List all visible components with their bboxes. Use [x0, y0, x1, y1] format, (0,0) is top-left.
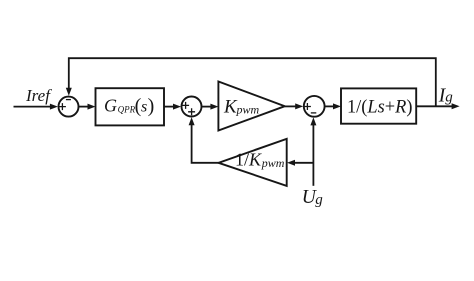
- gain 1/Kpwm (left-pointing triangle): [219, 139, 287, 186]
- block 1/(Ls+R): [341, 88, 416, 123]
- svg-text:g: g: [315, 192, 323, 208]
- wire output Ig: [416, 103, 459, 109]
- svg-text:QPR: QPR: [118, 105, 136, 115]
- svg-text:1/: 1/: [235, 150, 249, 170]
- wire summer 3 to block plant: [325, 103, 341, 109]
- svg-text:pwm: pwm: [261, 156, 285, 170]
- node Ug label: [302, 187, 324, 208]
- summing junction S2: [182, 97, 202, 117]
- svg-text:): ): [148, 95, 155, 117]
- node Ig label: [438, 85, 453, 106]
- svg-text:pwm: pwm: [236, 103, 260, 117]
- wire Ug to summer 3: [310, 117, 316, 185]
- wire block GQPR to summer 2: [164, 104, 181, 110]
- summing junction S3: [304, 96, 325, 117]
- svg-text:1/(Ls+R): 1/(Ls+R): [347, 97, 413, 117]
- wire Ug branch to gain 1/Kpwm: [287, 160, 313, 166]
- svg-text:G: G: [104, 96, 117, 116]
- wire summer 1 to block GQPR: [79, 104, 96, 110]
- gain Kpwm (triangle): [218, 82, 284, 131]
- block G_QPR(s): [96, 88, 165, 125]
- svg-text:s: s: [141, 99, 147, 116]
- wire summer 2 to gain Kpwm: [202, 104, 219, 110]
- wire top feedback from output tap to summer 1: [66, 58, 436, 106]
- wire summer 2 bottom feedback from gain 1/Kpwm apex: [189, 117, 219, 163]
- summing junction S1: [59, 97, 79, 117]
- wire gain Kpwm to summer 3: [285, 103, 303, 109]
- wire input Iref to summer 1: [14, 104, 58, 110]
- svg-text:g: g: [445, 90, 453, 106]
- svg-text:K: K: [248, 150, 262, 170]
- node Iref label: [25, 86, 52, 105]
- svg-text:Iref: Iref: [25, 86, 52, 105]
